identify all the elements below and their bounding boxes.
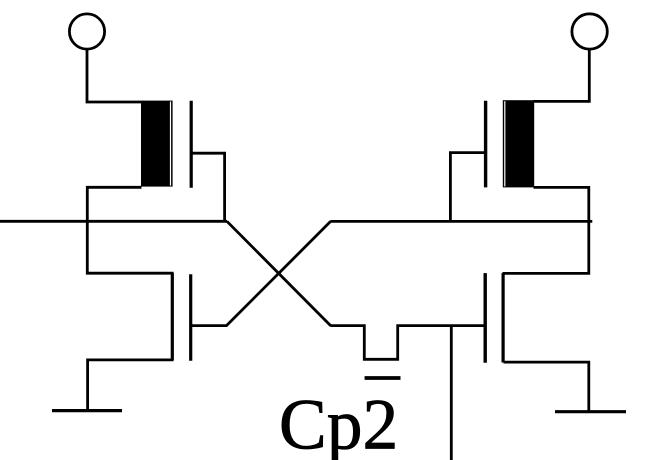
M1 bar inner white gap xyxy=(170,102,171,186)
M2 gate plate xyxy=(484,101,487,188)
svg-text:Cp2: Cp2 xyxy=(279,386,398,460)
node wire right (output net, y=221) xyxy=(330,220,592,223)
bottom net wire with capacitor top plate notch xyxy=(330,326,484,360)
wire M1 drain down to M3 drain xyxy=(87,187,173,273)
wire vertical lead down from bottom net xyxy=(450,326,453,460)
wire diagonal A (left gate net to right bottom) xyxy=(227,221,331,325)
wire M3 source to ground xyxy=(88,360,174,411)
M1 gate lead wire xyxy=(192,153,225,221)
node wire left (input net, y=221) xyxy=(0,220,227,223)
M4 gate plate xyxy=(484,273,487,363)
terminal circle T1 (left supply) xyxy=(69,14,104,49)
ground right xyxy=(555,410,626,413)
ground left xyxy=(52,409,122,412)
transistor M2 (right PMOS) channel bar xyxy=(503,100,534,187)
wire M2 drain down to M4 drain xyxy=(503,187,589,273)
transistor M1 (left PMOS) channel bar xyxy=(141,101,173,187)
wire M4 source to ground xyxy=(504,362,589,412)
M1 gate plate xyxy=(190,101,193,188)
transistor M4 (right NMOS) channel plate xyxy=(502,273,505,362)
M3 gate plate xyxy=(189,274,192,361)
wire from T2 to PMOS M2 source xyxy=(534,49,590,101)
transistor M3 (left NMOS) channel plate xyxy=(171,273,174,360)
M2 bar inner white gap xyxy=(504,101,505,186)
M2 gate lead wire xyxy=(450,153,485,222)
terminal circle T2 (right supply) xyxy=(572,14,607,49)
wire from T1 to PMOS M1 source xyxy=(87,49,142,102)
wire diagonal B (left NMOS gate up to right net) xyxy=(192,221,331,325)
capacitor Cp2 bottom plate xyxy=(365,376,401,380)
